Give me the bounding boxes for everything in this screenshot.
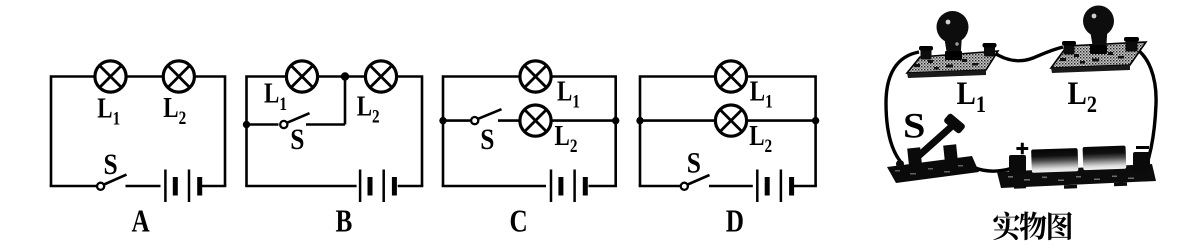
glyph 实 [993,212,1019,241]
lamp L1 of C: circle-X symbol [520,61,551,92]
battery of D: two cells [757,170,791,203]
svg-text:D: D [726,205,744,239]
wire: circuit C loop rails [443,77,616,187]
svg-text:S: S [687,146,701,179]
wire: C bottom segment to battery [442,185,546,188]
lamp assembly L2: base plate, terminals, bulb [1051,6,1146,74]
speckles on battery base [1008,176,1134,182]
wire: D segment battery to right corner [794,185,817,188]
wire: B segment battery to right corner [398,185,424,188]
wire: lamp L1 right terminal to lamp L2 left terminal [993,47,1063,61]
svg-text:S: S [480,123,494,156]
wire: knife switch right terminal to battery positive post [974,168,1011,172]
switch S of B: pivot circle and lever [280,113,309,128]
battery of B: two cells [360,170,394,203]
svg-text:S: S [104,148,118,181]
lamp L2 of D: circle-X symbol [715,105,746,136]
wire: C middle branch right segment through L2 [498,119,616,122]
caption 实物图 [993,211,1072,240]
wire: circuit B loop rails [247,77,423,187]
wire: B riser up to top junction [344,77,347,125]
glyph 物 [1020,211,1047,240]
lamp L1 of B: circle-X symbol [286,61,317,92]
wire: D bottom-left segment to switch [639,185,681,188]
wire: C segment battery to right corner [589,185,618,188]
label + (battery positive) [1016,143,1028,155]
knife switch: base, hinge post, lever with handle, terminal post [887,113,979,183]
clips under battery base [1014,185,1026,189]
svg-text:S: S [903,106,925,146]
node: junction dot on left rail of B [243,121,250,128]
wire: lamp L1 left terminal down to knife switch [886,52,919,161]
switch S of D: pivot circle and lever [681,175,710,190]
node: junction dot left rail of D [636,117,643,124]
lamp assembly L1: base plate, terminals, bulb [907,11,998,78]
svg-text:B: B [336,205,353,239]
node: junction dot right rail of D [812,117,819,124]
svg-text:S: S [290,123,304,156]
switch S of A: pivot circle and lever [97,175,127,190]
svg-text:A: A [132,205,151,239]
wire: circuit A loop rails [51,77,225,187]
wire: A segment switch to battery [126,185,161,188]
battery of A: two cells [165,170,199,203]
lamp L2 of B: circle-X symbol [365,61,396,92]
label - (battery negative) [1136,146,1149,149]
lamp L2 of C: circle-X symbol [520,105,551,136]
lamp L1 of A: circle-X symbol [95,61,126,92]
lamp L1 of D: circle-X symbol [715,61,746,92]
switch S of C: pivot circle and lever [471,109,501,124]
glyph 图 [1048,212,1072,240]
node: junction dot between L1 and L2 of B [341,72,349,80]
lamp L2 of A: circle-X symbol [163,61,194,92]
wire: B branch segment lever tip to riser [306,123,345,126]
battery of C: two cells [551,170,585,203]
wire: A bottom-left segment to switch [50,185,97,188]
node: junction dot right rail of C [612,117,619,124]
wire: lamp L2 right terminal down to battery negative post [1133,47,1156,167]
battery holder: base, two cells, terminal posts [997,146,1156,189]
wire: D middle branch through L2 [640,119,816,122]
wire: B bottom segment to battery [245,185,356,188]
wire: A segment battery to right corner [202,185,226,188]
wire: circuit D loop rails [640,77,816,187]
node: junction dot left rail of C [439,117,446,124]
wire: D segment switch to battery [709,185,753,188]
svg-text:C: C [510,205,528,239]
wire: B parallel branch left segment [247,123,279,126]
wire: C middle branch left segment [443,119,470,122]
